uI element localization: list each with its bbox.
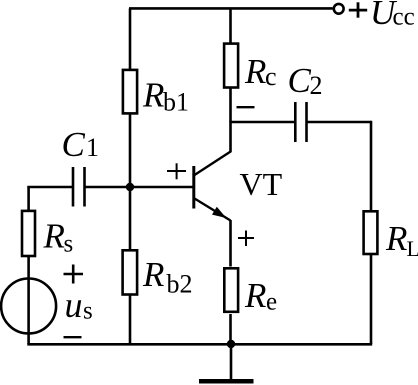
svg-text:C: C (62, 125, 86, 164)
wire input horizontal left segment (27, 186, 73, 189)
svg-text:2: 2 (310, 71, 323, 100)
label minus at collector (237, 106, 255, 108)
svg-text:R: R (244, 276, 266, 315)
transistor VT collector lead (195, 151, 232, 175)
resistor Rb1 (123, 70, 137, 114)
ground (230, 344, 233, 380)
svg-text:R: R (385, 219, 407, 258)
svg-text:L: L (407, 236, 418, 261)
wire bottom rail (27, 343, 372, 346)
svg-text:R: R (43, 217, 65, 256)
svg-text:c: c (265, 62, 277, 91)
svg-text:1: 1 (86, 133, 99, 162)
label plus above us (64, 273, 84, 276)
svg-text:s: s (64, 231, 74, 258)
svg-text:b2: b2 (167, 270, 193, 299)
wire left input vertical (27, 186, 30, 344)
wire C2 to right branch (307, 121, 372, 124)
top rail wire (129, 7, 333, 10)
wire collector node to C2 (229, 121, 295, 124)
resistor Rb2 (123, 250, 138, 294)
transistor VT emitter arrow (212, 207, 226, 218)
terminal +Ucc circle (334, 4, 344, 14)
svg-text:VT: VT (240, 166, 283, 202)
svg-text:C: C (288, 61, 312, 100)
svg-text:R: R (244, 52, 266, 91)
svg-text:u: u (65, 285, 83, 325)
label plus at emitter (238, 237, 254, 239)
resistor Re (224, 268, 238, 312)
resistor Rs (22, 211, 35, 256)
wire input horizontal right segment to base (85, 186, 193, 189)
label +Ucc plus sign (349, 9, 367, 12)
wire right branch vertical (370, 121, 373, 344)
capacitor C2 (294, 102, 297, 142)
node B dot (126, 183, 134, 191)
transistor VT emitter lead (195, 199, 231, 221)
wire Rb2 branch vertical (129, 187, 132, 344)
wire Re to bottom rail (229, 314, 232, 344)
svg-text:cc: cc (393, 4, 415, 31)
resistor RL (364, 211, 378, 254)
svg-text:s: s (83, 298, 93, 325)
wire Rc branch vertical (229, 9, 232, 123)
capacitor C1 (72, 167, 75, 207)
resistor Rc (224, 44, 238, 88)
transistor VT base bar (192, 166, 195, 209)
label minus below us (64, 336, 82, 338)
svg-text:e: e (266, 289, 277, 316)
svg-text:R: R (142, 255, 164, 294)
node E dot (bottom rail junction) (227, 340, 235, 348)
svg-text:R: R (142, 76, 164, 115)
svg-text:b1: b1 (163, 88, 189, 117)
wire Rb1 branch vertical (129, 9, 132, 188)
source us circle (1, 279, 56, 334)
label plus at base (167, 170, 186, 172)
